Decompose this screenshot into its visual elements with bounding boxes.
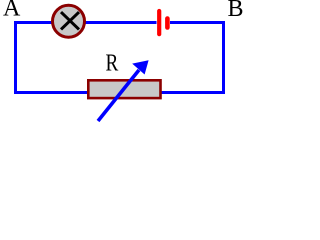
wire top-right segment <box>170 21 225 24</box>
battery B1 negative plate <box>165 19 170 28</box>
lamp L1 cross stroke 2 <box>61 12 79 29</box>
lamp L1 cross stroke 1 <box>61 12 79 29</box>
wire right side <box>222 21 225 94</box>
wire left side <box>14 21 17 94</box>
rheostat arrow shaft <box>98 70 139 121</box>
battery B1 positive plate <box>157 11 161 34</box>
wire bottom <box>14 91 225 94</box>
rheostat arrow head <box>132 60 148 74</box>
svg-text:B: B <box>228 0 244 22</box>
resistor R (rheostat body) <box>88 80 160 98</box>
svg-text:A: A <box>3 0 21 22</box>
lamp L1 circle <box>53 5 85 37</box>
wire top-left segment <box>14 21 157 24</box>
svg-text:R: R <box>106 50 119 77</box>
